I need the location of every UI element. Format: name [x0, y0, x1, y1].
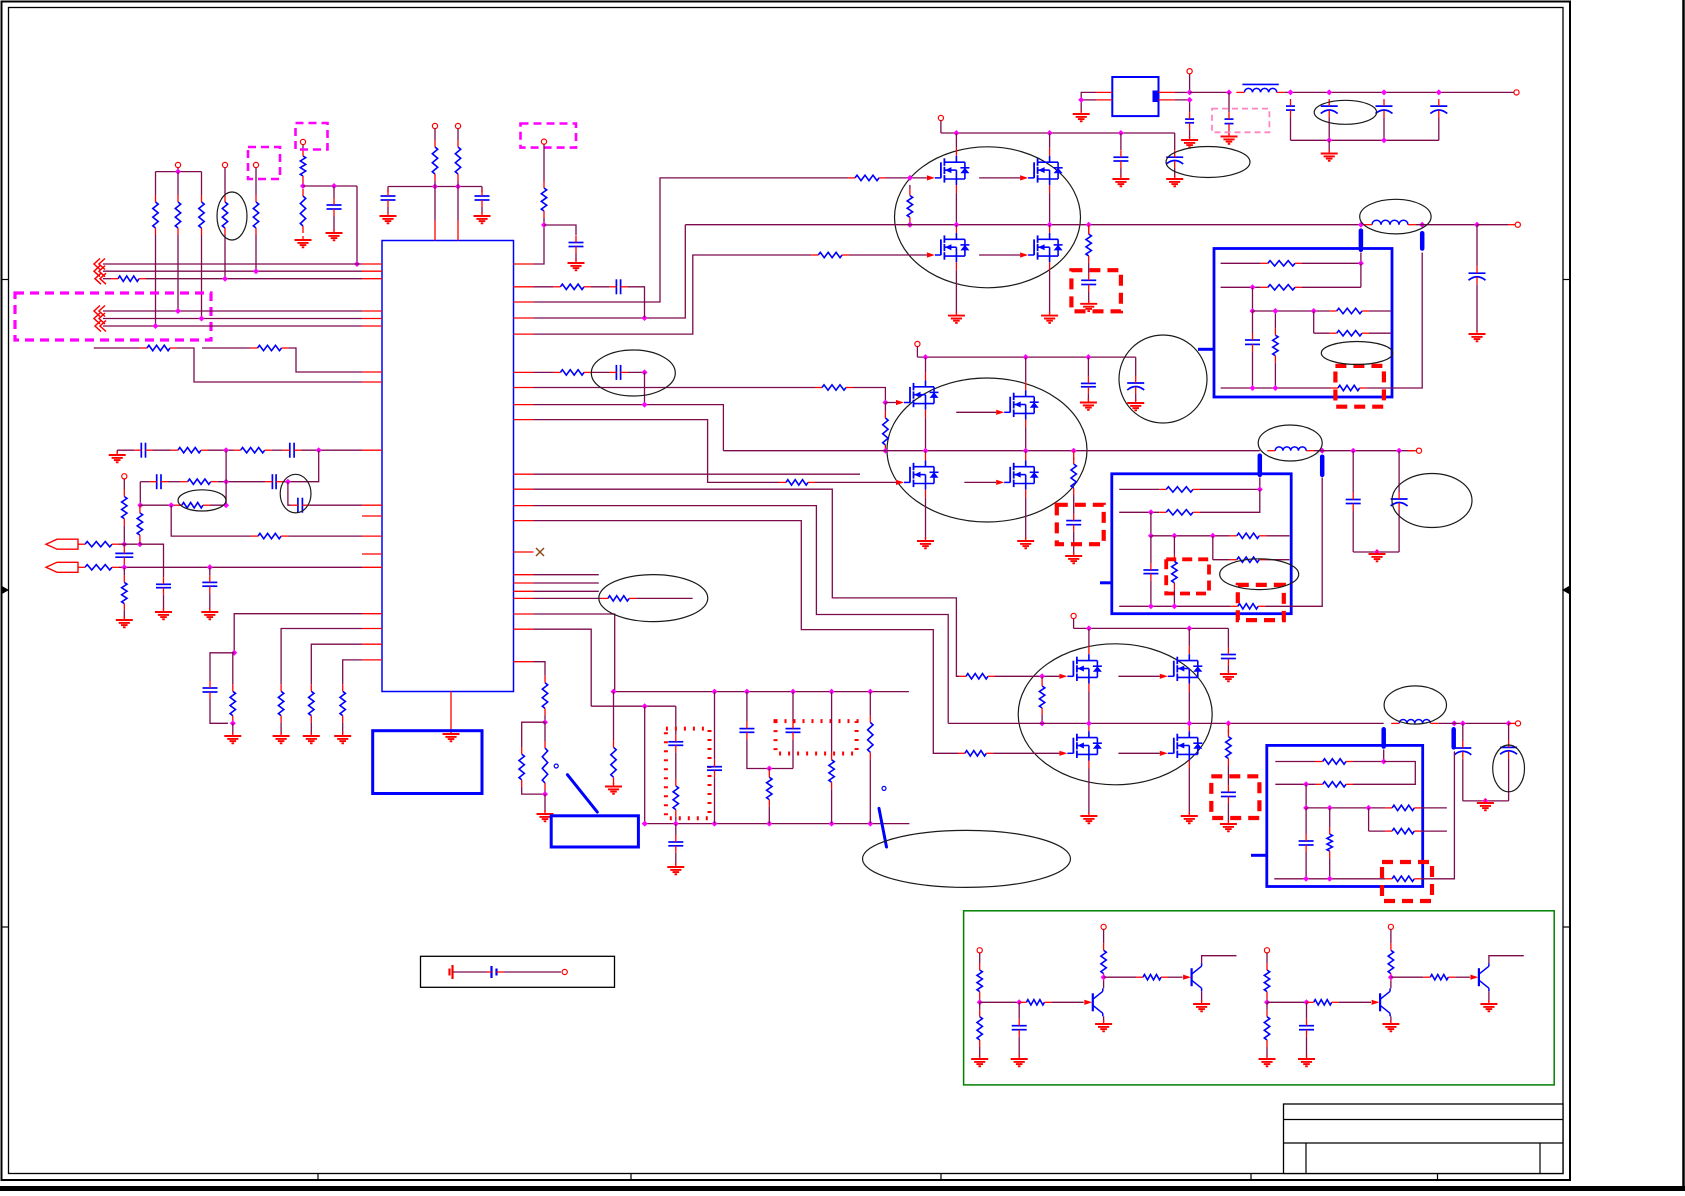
pin	[362, 449, 382, 451]
wire	[1438, 118, 1440, 141]
junction	[1250, 308, 1256, 314]
snubber box (red dashed)	[1071, 270, 1121, 311]
MOSFET Q lower	[1168, 731, 1203, 760]
shunt bar	[1381, 729, 1386, 746]
junction	[1186, 720, 1192, 726]
junction	[223, 447, 229, 453]
pin	[1408, 450, 1416, 452]
wire	[1274, 878, 1385, 880]
osc bus mid	[591, 705, 676, 707]
wire	[289, 348, 363, 372]
wire	[1267, 1001, 1307, 1003]
junction	[1436, 89, 1442, 95]
gate pin arrow	[996, 480, 1004, 485]
wire	[232, 723, 234, 734]
RC box (red dotted)	[776, 721, 857, 753]
junction	[923, 448, 929, 454]
resistor	[140, 345, 177, 350]
resistor	[111, 276, 146, 281]
wire	[1200, 488, 1260, 490]
pin	[1049, 262, 1051, 270]
wire	[1383, 750, 1385, 762]
pin	[955, 148, 957, 156]
wire	[123, 611, 125, 618]
osc bus upper	[614, 691, 909, 693]
ellipse annotation	[1493, 745, 1525, 792]
wire	[831, 789, 833, 823]
shunt bar	[1451, 729, 1456, 747]
junction	[1101, 974, 1107, 980]
wire	[140, 544, 164, 577]
wire	[591, 286, 609, 288]
wire	[940, 121, 942, 133]
capacitor	[150, 474, 168, 489]
wire	[1306, 1037, 1308, 1057]
trimmer wiper arrow	[879, 808, 887, 847]
capacitor	[1012, 1019, 1027, 1037]
wire	[1188, 769, 1190, 815]
wire	[979, 999, 981, 1003]
junction	[953, 130, 959, 136]
resistor (circled)	[222, 195, 227, 235]
resistor	[553, 284, 591, 289]
wire	[544, 790, 546, 794]
wire	[1360, 263, 1362, 287]
wire	[1328, 140, 1330, 151]
pin circle	[938, 115, 943, 120]
wire	[94, 347, 140, 349]
wire	[1314, 332, 1330, 334]
wire	[1201, 991, 1203, 1002]
wire	[613, 692, 615, 741]
wire	[1025, 498, 1027, 539]
pin circle	[1071, 613, 1076, 618]
junction	[1226, 89, 1232, 95]
resistor	[171, 448, 208, 453]
wire	[869, 692, 871, 716]
wire	[171, 505, 251, 536]
wire	[1049, 270, 1051, 313]
wire	[534, 218, 545, 264]
pin	[514, 590, 534, 592]
wire	[636, 597, 693, 599]
gate pin arrow	[1059, 751, 1067, 756]
pin	[362, 504, 382, 506]
pin circle	[1187, 69, 1192, 74]
inductor L1	[1236, 84, 1284, 92]
capacitor	[381, 189, 396, 207]
bus wire	[103, 310, 362, 312]
pin	[514, 628, 534, 630]
polarized capacitor	[1321, 99, 1338, 117]
wire	[1305, 784, 1307, 808]
wire	[1073, 495, 1075, 514]
NPN transistor Q	[1470, 963, 1489, 991]
pin	[362, 613, 382, 615]
wire	[909, 223, 911, 225]
resistor	[1136, 975, 1168, 980]
junction	[1358, 260, 1364, 266]
junction	[953, 222, 959, 228]
sheet entry chevron	[94, 306, 105, 317]
wire	[1369, 830, 1386, 832]
capacitor	[1346, 493, 1361, 511]
wire	[1390, 930, 1392, 944]
resistor	[1226, 730, 1231, 766]
junction	[1396, 448, 1402, 454]
pin	[1049, 227, 1051, 233]
polarized capacitor	[1166, 150, 1183, 168]
wire	[1367, 253, 1423, 389]
junction	[1250, 385, 1256, 391]
wire	[1041, 715, 1043, 723]
wire	[1274, 363, 1276, 388]
junction	[642, 315, 648, 321]
MOSFET Q lower	[904, 460, 939, 489]
wire	[792, 692, 794, 722]
capacitor	[115, 546, 133, 564]
border tick bottom	[940, 1174, 942, 1181]
junction	[1016, 999, 1022, 1005]
pin	[514, 419, 534, 421]
wire	[1175, 91, 1190, 93]
capacitor	[609, 365, 627, 380]
wire	[1088, 723, 1090, 725]
resistor	[230, 684, 235, 722]
sense resistor box (red dashed)	[1382, 862, 1432, 901]
box tick	[1100, 581, 1112, 584]
wire	[1352, 511, 1354, 553]
capacitor	[668, 735, 683, 753]
wire	[272, 449, 283, 451]
wire	[1119, 488, 1159, 490]
pin	[955, 262, 957, 270]
pin circle	[1264, 948, 1269, 953]
pin	[514, 505, 534, 507]
junction	[1148, 533, 1154, 539]
trimmer wiper arrow	[567, 775, 597, 812]
wire	[1228, 131, 1230, 135]
wire	[1339, 1001, 1371, 1003]
wire	[768, 769, 770, 771]
resistor	[1230, 557, 1266, 562]
wire	[1259, 478, 1261, 490]
junction	[1086, 625, 1092, 631]
ground	[1127, 399, 1144, 410]
MOSFET Q lower	[1067, 731, 1102, 760]
filter box (pink dashed)	[1212, 109, 1269, 133]
junction	[432, 184, 438, 190]
NPN transistor Q	[1084, 988, 1103, 1016]
wire	[980, 1001, 1020, 1003]
wire	[1306, 1002, 1308, 1018]
wire	[1353, 762, 1415, 785]
resistor	[779, 480, 815, 485]
ellipse annotation	[1392, 474, 1472, 528]
wire	[1120, 133, 1122, 150]
gate pin arrow	[1020, 175, 1028, 180]
resistor	[300, 149, 305, 183]
pin	[1159, 91, 1176, 93]
ellipse around L2	[1360, 199, 1431, 234]
box tick	[1198, 348, 1214, 351]
wire	[1416, 224, 1477, 226]
wire	[1150, 581, 1152, 607]
sheet entry chevron	[94, 266, 105, 277]
sheet entry chevron	[95, 273, 106, 284]
wire	[155, 172, 157, 195]
wire	[333, 216, 335, 231]
ground	[295, 236, 312, 247]
pin	[514, 520, 534, 522]
ground	[1480, 1000, 1497, 1011]
pin	[1049, 185, 1051, 193]
pin	[362, 381, 382, 383]
wire	[792, 739, 794, 768]
ground	[334, 732, 351, 743]
wire	[1266, 1047, 1268, 1057]
ground	[1112, 175, 1129, 186]
wire	[1353, 761, 1384, 763]
junction	[1303, 781, 1309, 787]
junction	[542, 719, 548, 725]
capacitor	[265, 474, 283, 489]
IC ground pin	[450, 692, 452, 733]
wire	[1302, 262, 1361, 264]
wire	[925, 418, 927, 451]
ground	[380, 212, 397, 223]
pin	[514, 488, 534, 490]
driver section box (green)	[964, 911, 1555, 1085]
box (red dashed)	[1166, 559, 1209, 593]
junction	[222, 276, 228, 282]
pin	[925, 490, 927, 498]
wire	[1088, 263, 1090, 273]
pin	[514, 371, 534, 373]
battery box	[421, 956, 615, 987]
bus wire	[146, 278, 362, 280]
ground	[1220, 820, 1237, 831]
wire	[1328, 118, 1330, 141]
ellipse around bridge3 FETs	[1018, 644, 1212, 785]
wire	[1290, 117, 1292, 140]
resistor	[1159, 487, 1200, 492]
off-page connector	[46, 562, 78, 572]
pin	[514, 551, 534, 553]
capacitor	[1143, 563, 1158, 581]
resistor	[519, 747, 524, 787]
wire	[1168, 976, 1183, 978]
wire	[1212, 536, 1214, 560]
wire	[457, 129, 459, 140]
wire	[1421, 830, 1447, 832]
resistor	[1264, 1010, 1269, 1047]
pin	[1188, 725, 1190, 731]
wire	[1150, 536, 1152, 563]
pin	[955, 185, 957, 193]
junction	[1381, 89, 1387, 95]
pin	[1188, 761, 1190, 769]
resistor	[251, 345, 289, 350]
capacitor	[609, 279, 627, 294]
bus wire	[103, 270, 362, 272]
ellipse annotation	[1166, 147, 1250, 178]
ground	[1193, 1000, 1210, 1011]
wire	[1455, 976, 1470, 978]
cell capacitor	[487, 966, 504, 978]
border tick right	[1563, 279, 1570, 281]
wire	[281, 629, 362, 685]
pin	[925, 453, 927, 461]
wire	[1314, 450, 1414, 452]
junction	[611, 689, 617, 695]
pin	[362, 566, 382, 568]
pin	[514, 473, 534, 475]
ground	[201, 608, 218, 619]
MOSFET Q lower	[1004, 460, 1038, 489]
wire	[714, 777, 716, 823]
capacitor	[1225, 112, 1234, 131]
gate wire	[534, 387, 816, 389]
wire	[1103, 930, 1105, 944]
stub wire	[534, 590, 599, 592]
pin	[514, 333, 534, 335]
resistor	[153, 195, 158, 235]
pin circle	[1101, 924, 1106, 929]
sheet entry chevron	[95, 321, 106, 332]
wire	[1135, 357, 1137, 376]
junction	[137, 541, 143, 547]
border tick right	[1563, 926, 1570, 928]
ellipse big circle	[1119, 335, 1207, 423]
pin	[514, 582, 534, 584]
wire	[387, 207, 389, 213]
gate wire	[1118, 675, 1159, 677]
wire	[1398, 451, 1400, 492]
power rail wire	[1190, 91, 1229, 93]
junction	[121, 541, 127, 547]
resistor	[673, 779, 678, 817]
pin	[1227, 723, 1229, 732]
junction	[455, 184, 461, 190]
bridge1 top rail	[941, 132, 1175, 134]
capacitor	[202, 575, 217, 593]
resistor	[868, 715, 873, 759]
wire	[202, 347, 251, 349]
wire	[1025, 451, 1027, 453]
resistor	[1330, 308, 1369, 313]
ground	[1041, 312, 1058, 323]
junction	[1319, 448, 1325, 454]
wire	[1476, 284, 1478, 332]
junction	[673, 821, 679, 827]
pin circle	[300, 139, 305, 144]
wire	[1488, 991, 1490, 1002]
feedback network box (blue)	[1112, 474, 1291, 614]
pin	[955, 227, 957, 233]
polarized capacitor	[1127, 376, 1144, 394]
MOSFET Q lower	[935, 233, 970, 262]
inductor L2	[1364, 220, 1416, 224]
resistor	[1231, 604, 1265, 609]
resistor	[977, 1010, 982, 1047]
wire	[522, 722, 545, 747]
ground	[1080, 812, 1097, 823]
pin	[1188, 684, 1190, 692]
junction	[712, 821, 718, 827]
wire	[177, 235, 179, 311]
junction	[642, 703, 648, 709]
resistor	[767, 770, 772, 806]
wire	[1087, 357, 1089, 376]
gate pin arrow	[896, 400, 904, 405]
wire from IC pin318	[534, 225, 686, 318]
wire	[139, 482, 141, 506]
wire	[1508, 723, 1510, 740]
wire	[1421, 751, 1454, 878]
junction	[1304, 999, 1310, 1005]
junction	[1326, 137, 1332, 143]
wire from IC pin629	[534, 629, 592, 706]
wire	[232, 722, 234, 725]
wire	[280, 723, 282, 734]
junction	[882, 400, 888, 406]
wire	[1463, 800, 1509, 802]
wire	[544, 794, 546, 812]
resistor	[958, 751, 993, 756]
junction	[1374, 549, 1380, 555]
pin circle	[1388, 924, 1393, 929]
pin	[362, 553, 382, 555]
wire	[575, 254, 577, 262]
ellipse annotation	[863, 830, 1071, 887]
wire	[543, 144, 545, 181]
junction	[642, 402, 648, 408]
pin	[362, 278, 382, 280]
wire	[311, 644, 362, 684]
wire	[1274, 311, 1276, 328]
snubber box (red dashed)	[1057, 505, 1104, 544]
junction	[829, 689, 835, 695]
capacitor	[283, 443, 301, 458]
gate pin arrow	[896, 480, 904, 485]
ground	[1011, 1055, 1028, 1066]
junction	[1474, 222, 1480, 228]
wire	[1227, 666, 1229, 673]
capacitor	[1081, 273, 1096, 291]
ellipse around bridge1 FETs	[895, 147, 1081, 288]
wire	[288, 482, 291, 506]
capacitor	[739, 722, 754, 740]
wire	[628, 371, 645, 373]
wire	[123, 479, 125, 490]
wire	[201, 172, 203, 195]
junction	[1366, 805, 1372, 811]
junction	[1327, 876, 1333, 882]
pin	[362, 643, 382, 645]
wire	[1120, 168, 1122, 177]
pin	[362, 535, 382, 537]
resistor	[253, 195, 258, 235]
ground	[1259, 1055, 1276, 1066]
wire	[675, 752, 677, 779]
gate wire	[964, 481, 996, 483]
wire	[1438, 722, 1508, 724]
wire	[1368, 808, 1370, 831]
wire	[434, 129, 436, 140]
junction	[316, 447, 322, 453]
wire	[1174, 168, 1176, 177]
